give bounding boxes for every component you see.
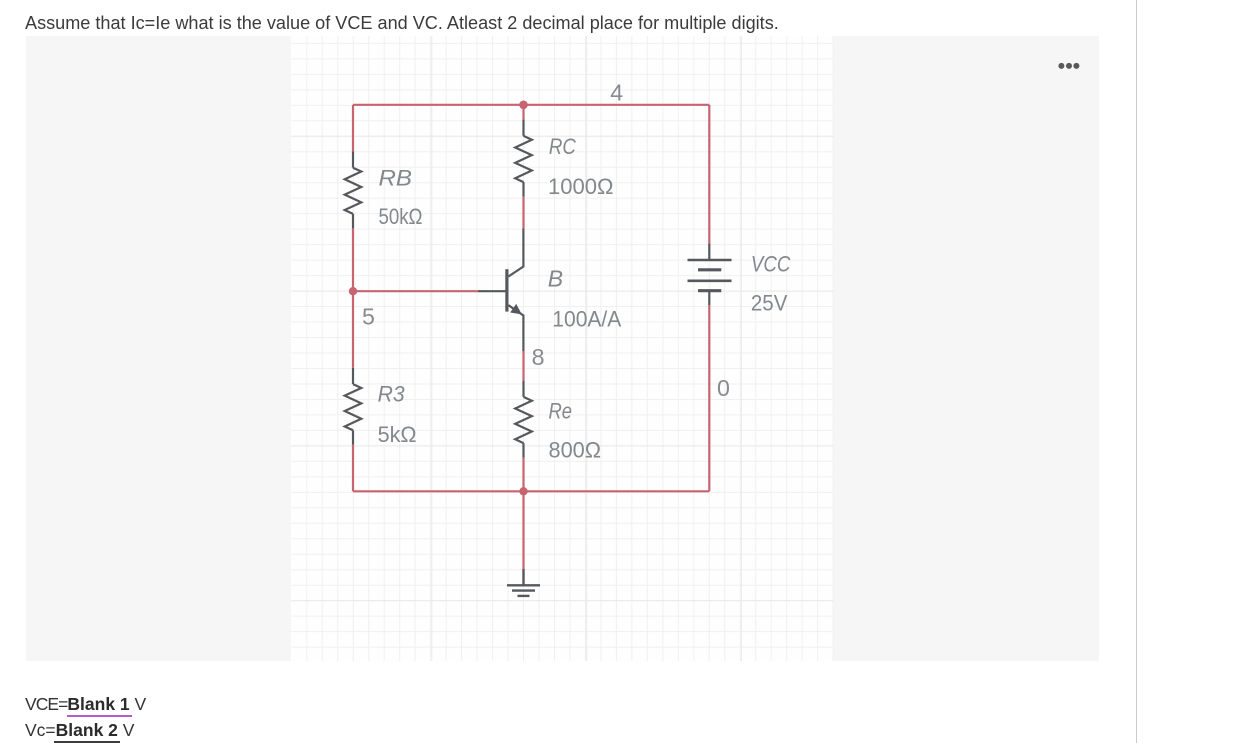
battery VCC	[688, 244, 732, 306]
wire RC to collector	[522, 197, 524, 229]
svg-text:VCC: VCC	[751, 252, 791, 277]
wire left upper	[352, 105, 354, 152]
resistor RB	[345, 151, 362, 228]
svg-text:RB: RB	[379, 166, 413, 191]
svg-text:Re: Re	[549, 398, 573, 423]
resistor RC	[515, 120, 532, 197]
wire Re to bottom	[522, 458, 524, 492]
answer line 1	[25, 696, 146, 714]
svg-text:800Ω: 800Ω	[549, 438, 602, 463]
wire left middle	[352, 228, 354, 367]
blank 2 underline	[54, 741, 120, 743]
svg-text:100A/A: 100A/A	[552, 307, 621, 332]
junction node 5	[349, 287, 357, 295]
svg-text:25V: 25V	[751, 291, 788, 316]
junction bottom	[519, 487, 527, 495]
wire right upper	[708, 105, 710, 244]
wire ground stub	[522, 491, 524, 569]
question text	[25, 14, 779, 32]
svg-text:1000Ω: 1000Ω	[548, 174, 614, 199]
svg-text:5kΩ: 5kΩ	[378, 422, 417, 447]
wire left lower	[352, 445, 354, 492]
wire RC top stub	[522, 105, 524, 120]
svg-text:4: 4	[610, 79, 623, 105]
resistor Re	[515, 381, 532, 458]
screenshot block	[26, 36, 1099, 661]
grid minor lines	[291, 36, 833, 661]
svg-text:R3: R3	[378, 382, 406, 407]
wire right lower	[708, 305, 710, 491]
answer line 2	[25, 722, 134, 740]
svg-text:8: 8	[532, 344, 545, 370]
wire base (node 5 horizontal)	[353, 290, 478, 292]
grid major lines	[291, 36, 833, 661]
schematic grid canvas	[291, 36, 833, 661]
transistor emitter arrow	[510, 304, 522, 315]
svg-text:50kΩ: 50kΩ	[379, 204, 423, 229]
svg-text:RC: RC	[549, 134, 577, 159]
blank 1 underline	[67, 715, 132, 717]
svg-text:0: 0	[717, 375, 730, 401]
svg-text:B: B	[548, 265, 563, 291]
column divider	[1136, 0, 1137, 743]
junction node 4	[519, 101, 528, 110]
wire top (node 4)	[353, 104, 709, 106]
kebab menu dots	[1051, 56, 1091, 76]
transistor B	[478, 228, 523, 351]
svg-text:5: 5	[362, 304, 375, 330]
ground	[507, 569, 540, 596]
wire emitter to Re	[522, 351, 524, 381]
wire bottom	[353, 490, 709, 492]
resistor R3	[345, 368, 362, 445]
